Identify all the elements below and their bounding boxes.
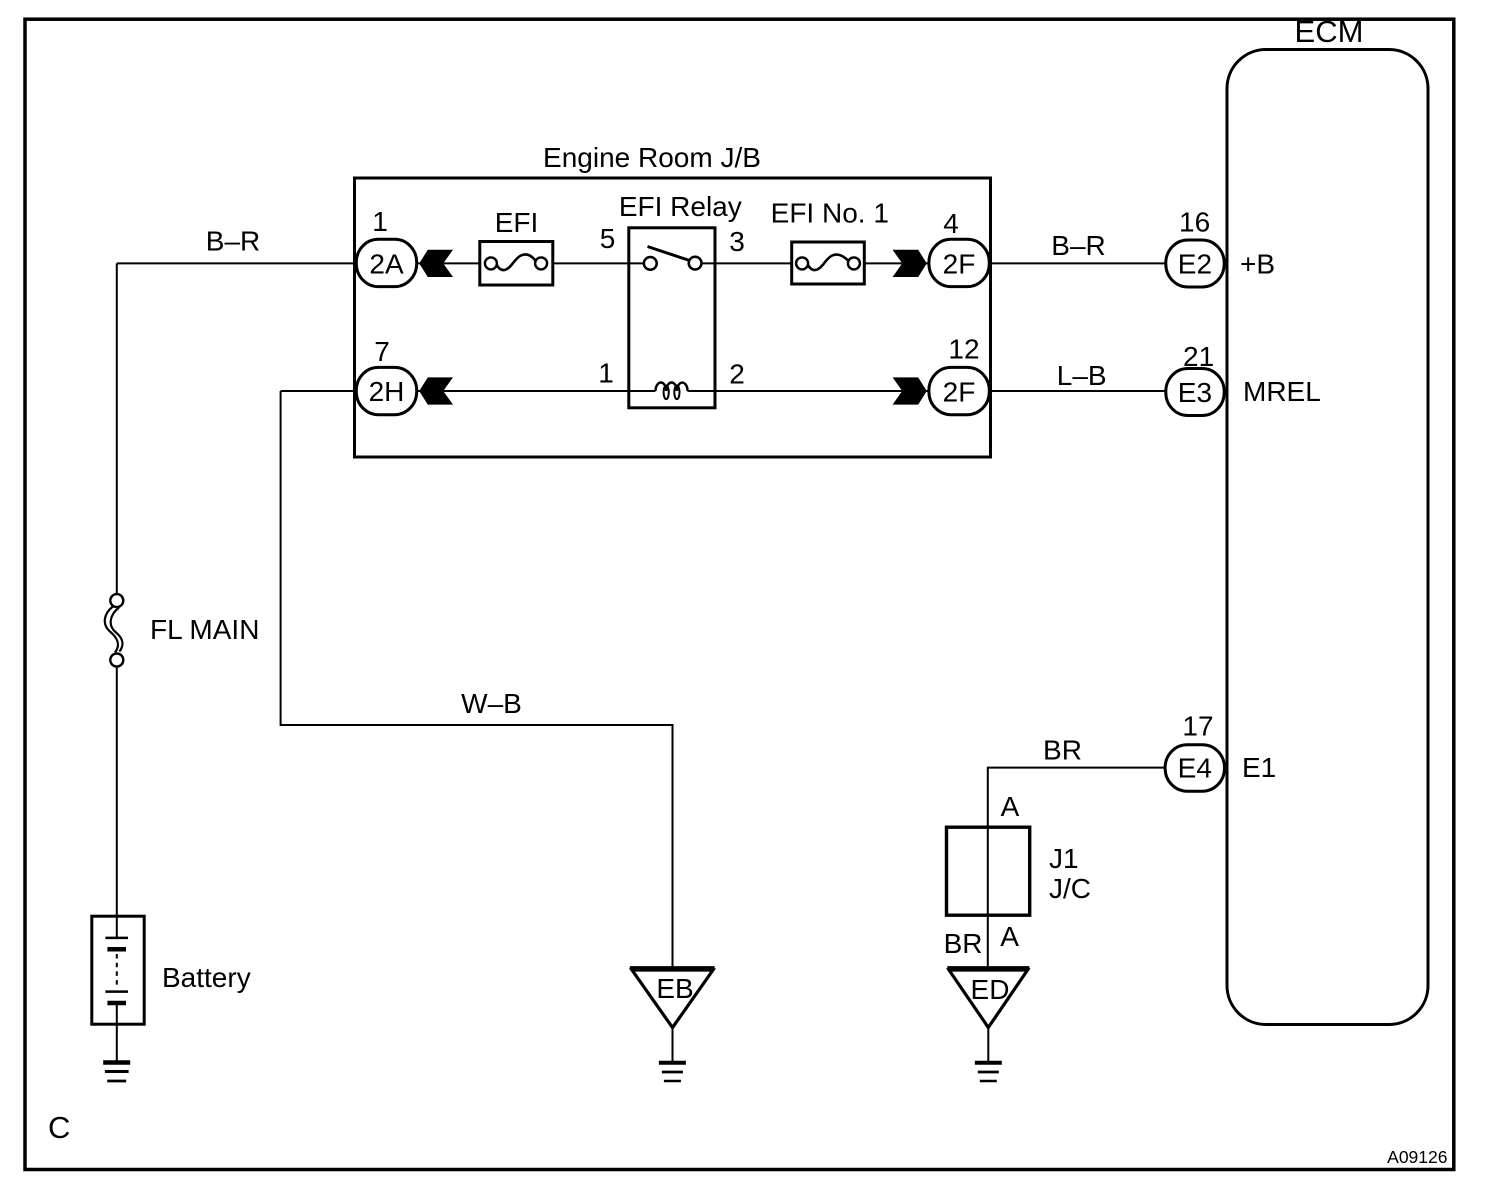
relay switch contact 3: [689, 257, 702, 270]
svg-text:L–B: L–B: [1057, 360, 1107, 391]
junction connector J1 box: [947, 827, 1030, 915]
connector 2F lower: [929, 367, 989, 414]
svg-text:1: 1: [598, 358, 614, 389]
svg-text:J1: J1: [1049, 843, 1079, 874]
connector 2H: [356, 367, 416, 414]
wire FL MAIN to battery: [116, 667, 118, 938]
battery: [92, 916, 144, 1024]
wire left vertical to FL MAIN: [116, 263, 118, 593]
relay switch blade: [648, 247, 690, 261]
wire 2F lower to E3: [991, 390, 1165, 392]
svg-text:EFI: EFI: [495, 207, 539, 238]
ground below EB: [659, 1063, 686, 1081]
svg-text:3: 3: [729, 226, 745, 257]
connector 2F upper: [929, 239, 989, 286]
svg-text:B–R: B–R: [1051, 230, 1105, 261]
fusible link FL MAIN: [105, 594, 124, 666]
svg-text:A09126: A09126: [1387, 1147, 1447, 1167]
svg-text:16: 16: [1179, 206, 1210, 237]
connector 2A: [356, 239, 416, 286]
wire EFI fuse to relay pin 5: [554, 262, 644, 264]
svg-text:E2: E2: [1178, 249, 1212, 280]
arrow into 2F upper: [893, 250, 927, 277]
svg-text:2H: 2H: [369, 376, 405, 407]
svg-text:2: 2: [729, 359, 745, 390]
relay switch contact 5: [644, 257, 657, 270]
svg-text:BR: BR: [944, 928, 983, 959]
svg-text:E1: E1: [1242, 752, 1276, 783]
wire battery to ground: [116, 1003, 118, 1061]
svg-text:Battery: Battery: [162, 962, 251, 993]
svg-text:EFI No. 1: EFI No. 1: [771, 198, 889, 229]
wire BR from E4 down through J1 to ED: [988, 768, 1164, 967]
svg-text:E4: E4: [1178, 753, 1212, 784]
ground triangle EB: [630, 968, 715, 1028]
wire 2H to relay coil: [418, 390, 656, 392]
svg-text:7: 7: [374, 336, 390, 367]
svg-text:ED: ED: [971, 974, 1010, 1005]
connector E2: [1166, 240, 1224, 287]
wire relay coil to 2F lower: [688, 390, 928, 392]
svg-text:E3: E3: [1178, 377, 1212, 408]
wire B-R horizontal to 2A: [117, 262, 355, 264]
fuse EFI No. 1: [792, 242, 865, 284]
ECM module box: [1227, 50, 1428, 1025]
svg-text:ECM: ECM: [1295, 14, 1364, 49]
wire 2A to EFI fuse: [418, 262, 479, 264]
svg-text:J/C: J/C: [1049, 873, 1091, 904]
svg-text:FL MAIN: FL MAIN: [150, 614, 259, 645]
svg-text:Engine Room J/B: Engine Room J/B: [543, 142, 761, 173]
connector E4: [1165, 745, 1224, 792]
svg-text:2A: 2A: [369, 248, 404, 279]
svg-text:5: 5: [600, 223, 616, 254]
arrow into 2F lower: [893, 377, 927, 404]
wire W-B from 2H to EB: [281, 391, 673, 967]
arrow into 2H: [419, 377, 453, 404]
svg-text:W–B: W–B: [461, 688, 522, 719]
Engine Room J/B box: [355, 178, 991, 457]
svg-text:2F: 2F: [943, 248, 976, 279]
wire EFI No.1 fuse to 2F: [866, 262, 928, 264]
ground below battery: [103, 1063, 130, 1082]
relay coil: [656, 383, 688, 400]
svg-text:C: C: [48, 1110, 70, 1145]
arrow into 2A: [419, 250, 453, 277]
svg-text:1: 1: [372, 206, 388, 237]
svg-text:17: 17: [1182, 711, 1213, 742]
fuse EFI: [480, 242, 553, 286]
svg-text:A: A: [1001, 791, 1020, 822]
svg-text:BR: BR: [1043, 735, 1082, 766]
svg-text:B–R: B–R: [206, 226, 260, 257]
wire 2F to E2: [991, 262, 1165, 264]
wire EB apex to ground: [672, 1028, 674, 1061]
wire 2H to W-B corner: [281, 390, 355, 392]
connector E3: [1166, 369, 1224, 416]
ground triangle ED: [947, 968, 1029, 1028]
svg-text:21: 21: [1183, 341, 1214, 372]
svg-text:2F: 2F: [943, 376, 976, 407]
wire ED apex to ground: [987, 1028, 989, 1062]
svg-text:MREL: MREL: [1243, 376, 1321, 407]
svg-text:A: A: [1000, 921, 1019, 952]
relay EFI Relay box: [629, 228, 715, 408]
wire relay pin 3 to EFI No.1 fuse: [702, 262, 791, 264]
svg-text:EFI Relay: EFI Relay: [619, 191, 742, 222]
svg-text:+B: +B: [1240, 249, 1275, 280]
svg-text:12: 12: [948, 334, 979, 365]
ground below ED: [975, 1063, 1002, 1081]
svg-text:4: 4: [943, 208, 959, 239]
svg-text:EB: EB: [656, 973, 693, 1004]
